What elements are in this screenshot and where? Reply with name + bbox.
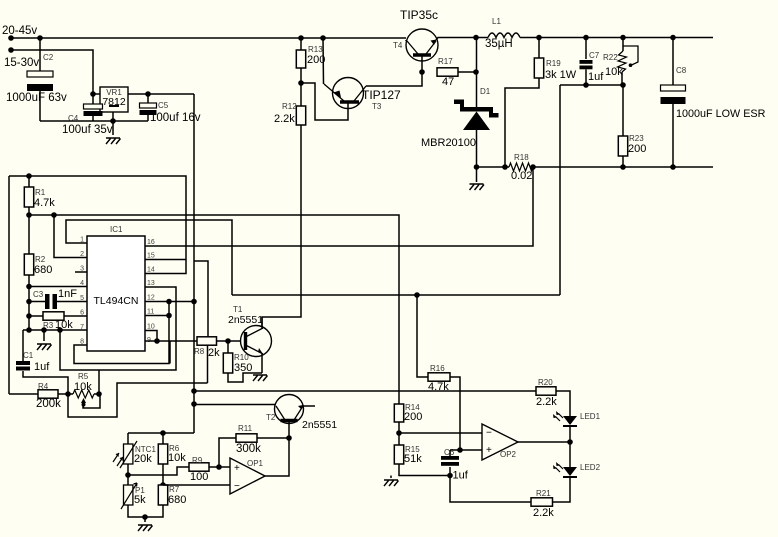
resistor R19 [534,58,543,78]
junction C2 top [37,35,43,41]
junction T1 base/R10 [225,338,231,344]
wire NTC1 bottom [127,464,129,475]
wire top output rail to L1 [436,38,488,41]
svg-text:14: 14 [147,267,155,274]
wire to C4 top [92,94,94,104]
wire to signal ground [43,330,45,341]
wire net A current sense to pin 16 [145,167,533,246]
junction bridge gnd [142,514,148,520]
junction pin2 tap [51,212,57,218]
wire R2 bottom bus [28,275,30,330]
svg-text:4.7k: 4.7k [428,381,449,393]
wire IC pin1 to net B [66,220,232,295]
inductor L1 [488,33,520,38]
junction C8 top [670,35,676,41]
wire R22 bottom [622,72,623,85]
wire divider to OP2- [399,432,482,434]
svg-text:2.2k: 2.2k [536,396,557,408]
svg-text:OP1: OP1 [247,459,264,468]
junction R18 right [530,164,536,170]
svg-text:R9: R9 [192,456,203,465]
svg-text:300k: 300k [236,443,261,455]
wire ground bus under VR1 [40,120,148,122]
junction R19 top [536,35,542,41]
resistor R3 [43,312,64,320]
ground comparator [384,480,399,486]
svg-text:20k: 20k [134,453,152,465]
svg-text:2: 2 [80,251,84,258]
wire bottom output rail [533,166,713,168]
junction C6 gnd [447,473,453,479]
svg-text:13: 13 [147,280,155,287]
svg-text:200: 200 [404,411,422,423]
svg-text:C1: C1 [23,351,34,360]
svg-text:+: + [486,445,492,456]
wire pin2 line and R14 column [29,215,399,404]
svg-text:R22: R22 [603,53,618,62]
resistor R11 [236,434,257,442]
svg-text:T1: T1 [233,305,243,314]
junction R14/R15 [396,430,402,436]
node + input terminal 20-45v [8,35,14,41]
wire pin 9 to R8 [145,340,197,342]
wire C2 bottom [39,91,41,121]
junction R1 top [26,173,32,179]
junction bridge left mid [125,472,131,478]
wire C6 bottom [449,467,451,476]
wire R20 to LED1 [556,391,570,416]
wire R3 to pin6 [64,315,87,317]
svg-text:1: 1 [80,237,84,244]
wire base node to R10 [227,341,229,353]
wire R5 right [94,393,99,395]
wire feedback tap line [560,84,623,86]
resistor R8 [197,337,217,345]
svg-text:TIP127: TIP127 [362,88,401,102]
wire bridge top rail [128,432,194,434]
svg-text:100: 100 [190,471,208,483]
svg-text:10k: 10k [605,66,623,78]
svg-text:R8: R8 [194,347,205,356]
junction C7 top [583,35,589,41]
junction OP2+ node [457,447,463,453]
junction pin7 gnd tap [41,327,47,333]
svg-text:4: 4 [80,280,84,287]
wire T3 emitter from rail [322,38,325,84]
svg-text:7: 7 [80,324,84,331]
svg-text:350: 350 [234,362,252,374]
wire rail to R19 [538,38,540,59]
capacitor C7 [580,60,593,64]
wire LED2 to R21 [553,477,571,502]
transistor T4 TIP35c [406,29,438,61]
svg-text:R13: R13 [308,45,323,54]
wire rail to R13 [300,38,302,50]
svg-text:C2: C2 [43,53,54,62]
svg-text:R11: R11 [238,424,253,433]
junction VCC to R20 bus [191,388,197,394]
junction R17/D1 [473,69,479,75]
LED2 [563,467,577,476]
svg-text:LED1: LED1 [580,412,601,421]
wire R14 to R15 [398,422,400,445]
svg-text:10k: 10k [168,452,186,464]
wire R15 bottom rail [399,464,450,476]
svg-text:5k: 5k [134,494,146,506]
svg-text:T2: T2 [266,413,276,422]
junction pin9/pin10 [154,338,160,344]
trimmer R5 [73,390,94,398]
wire feedback up to R11 [219,438,236,467]
wire to R1 [28,176,30,187]
wire top supply rail left segment [11,37,406,39]
transistor T1 2n5551 [241,326,272,357]
junction C7 bottom [583,82,589,88]
wire R17 to D1 column [458,71,476,73]
wire pin 3 stub [75,271,87,273]
wire R8 to T1 base [217,340,246,342]
wire gnd rail to R18 [477,166,510,168]
wire T1 emitter down [261,354,263,373]
resistor R18 shunt [509,163,533,171]
svg-text:12: 12 [147,295,155,302]
resistor R1 [24,187,33,207]
svg-text:R2: R2 [35,255,46,264]
svg-text:R12: R12 [282,102,297,111]
svg-text:15: 15 [147,253,155,260]
svg-text:R10: R10 [234,353,249,362]
junction pin13 gnd tie [57,327,63,333]
wire R5 right to gnd loop [98,370,100,394]
svg-text:R23: R23 [629,134,644,143]
wire net B vertical x560 [559,85,561,295]
svg-text:C7: C7 [589,51,600,60]
wire T2 emitter stub [303,405,315,407]
wire R21 to gnd node [450,476,531,503]
capacitor C1 [16,361,30,365]
wire R6/R7 node to OP1- [163,484,230,486]
junction pin12/pin11 tie [166,299,172,305]
svg-text:2.2k: 2.2k [533,507,554,519]
svg-text:10k: 10k [74,381,92,393]
wire T4 base down [421,56,423,72]
wire R9 to OP1+ [209,466,230,468]
wire to IC pin 2 [54,215,87,258]
wire R5 wiper to right end [83,394,100,408]
wire rail to C2 [39,38,41,71]
junction T4 base / R17 [419,69,425,75]
junction C8 bottom [670,164,676,170]
wire VR1 input [93,93,100,95]
wire R1/R2 node to R2 [28,215,30,254]
wire C1 bottom to R4 node [23,371,68,394]
wire 15-30v rail to VR1 input [11,50,93,94]
junction pin6 bus [26,313,32,319]
transistor T3 TIP127 [333,78,364,109]
wire VCC column to NTC bridge [193,302,195,434]
LED1 [563,416,577,425]
junction pin4 bus [26,284,32,290]
wire C6 node to OP2+ [450,449,482,451]
svg-text:100uf 16v: 100uf 16v [150,112,201,124]
wire bridge bottom [128,505,163,517]
wire pin8 loop riser [169,341,171,364]
wire to C5 top [147,94,149,103]
svg-text:R5: R5 [78,372,89,381]
capacitor C5 [140,103,157,108]
resistor R7 [158,485,167,505]
wire pin 4 [29,286,87,288]
op-amp OP1 [230,458,265,494]
wire OP2 output [518,441,570,443]
resistor R2 [24,254,33,275]
wire pin 15 to Vref column [145,259,186,261]
resistor R21 [531,498,553,506]
svg-text:5: 5 [80,295,84,302]
junction R22 top [620,35,626,41]
svg-text:16: 16 [147,239,155,246]
wire to R6 [162,433,164,444]
wire pin10 jog [145,331,157,342]
capacitor C4 [84,104,103,109]
wire net B down to R16 [417,295,428,377]
svg-text:47: 47 [442,76,454,88]
junction pin12 to VCC column [191,299,197,305]
wire to P1 [127,475,129,485]
wire output rail after L1 [520,37,713,39]
power ground symbol [470,184,485,190]
svg-text:R7: R7 [169,485,180,494]
resistor R16 [428,373,450,381]
wire rail to C7 [585,38,587,60]
junction pin7 bus [26,327,32,333]
transistor T2 2n5551 [275,395,304,424]
op-amp OP2 [482,424,518,460]
junction VCC to T2 collector [191,401,197,407]
resistor R13 [296,50,305,68]
wire to power ground [476,167,478,182]
svg-text:C8: C8 [676,66,687,75]
junction R1/R2 [26,212,32,218]
svg-text:11: 11 [147,309,154,316]
R5 wiper [83,401,85,408]
wire to bridge ground [144,517,146,522]
node second input terminal 15-30v [8,47,14,53]
capacitor C6 [441,456,459,460]
NTC arrows [113,453,123,466]
wire R22 bottom to R23 [622,85,624,136]
potentiometer P1 [124,485,133,505]
junction pin11 [166,313,172,319]
wire rail joins T4 [405,40,407,41]
svg-text:2n5551: 2n5551 [228,314,263,326]
wire VCC column upper [193,94,195,302]
junction C5 top [145,91,151,97]
svg-text:R18: R18 [514,153,529,162]
trimmer R22 [623,46,638,65]
svg-text:D1: D1 [480,87,491,96]
wire Vref pin14 loop top [9,176,186,274]
svg-text:200k: 200k [36,398,61,410]
junction R22 bottom [620,82,626,88]
svg-text:2.2k: 2.2k [274,113,295,125]
junction R13 top [298,35,304,41]
wire to R5 [68,393,73,395]
wire pin 11 [145,315,169,317]
wire R11 to output node [257,437,289,439]
svg-text:R17: R17 [438,57,453,66]
svg-text:TL494CN: TL494CN [94,295,139,307]
regulator VR1 7812 [100,87,128,112]
resistor R12 [296,106,305,125]
svg-text:1nF: 1nF [58,288,77,300]
wire R16 to OP2+ [450,377,460,450]
svg-text:1000uF 63v: 1000uF 63v [6,92,67,104]
svg-text:0.02: 0.02 [511,170,532,182]
wire VCC bus to R20 [194,390,536,392]
svg-text:35µH: 35µH [485,38,513,50]
wire left bus to R4 [9,393,38,395]
svg-text:R4: R4 [38,382,49,391]
svg-text:1uf: 1uf [34,361,50,373]
svg-text:1uf: 1uf [588,71,604,83]
svg-text:2k: 2k [208,347,220,359]
wire junction to R12 [300,83,302,106]
svg-text:T4: T4 [393,41,403,50]
wire VCC branch to R8 column [194,261,208,338]
svg-text:51k: 51k [404,453,422,465]
wire T2 base down [288,422,290,438]
capacitor C8 [661,85,686,91]
wire to C1 top [22,330,24,361]
svg-text:−: − [234,481,240,492]
wire OP1 output up [265,438,289,476]
svg-text:L1: L1 [492,17,501,26]
svg-text:10: 10 [147,324,155,331]
svg-text:7812: 7812 [102,96,126,108]
wire T2 collector bus [194,404,275,406]
resistor R9 [189,463,209,471]
svg-text:200: 200 [628,143,646,155]
wire T3 base path [301,83,348,120]
wire C3 to pin5 [57,301,87,303]
resistor R17 [437,68,458,76]
svg-text:3k 1W: 3k 1W [545,69,577,81]
capacitor C3 [45,294,50,309]
svg-text:R20: R20 [538,378,553,387]
wire C7 bottom [585,70,587,86]
junction R18 left [502,164,508,170]
svg-text:100uf 35v: 100uf 35v [62,124,113,136]
junction bridge right mid [160,482,166,488]
wire net B feedback horizontal [232,294,560,296]
svg-text:LED2: LED2 [580,463,601,472]
svg-text:IC1: IC1 [110,225,123,234]
wire VR1 ground pin [112,112,114,121]
junction net B to R16 [414,292,420,298]
resistor R14 [394,404,403,422]
wire R6 bottom [162,464,164,485]
junction D1 top [473,35,479,41]
ground T1 emitter [253,375,268,381]
svg-text:−: − [486,428,492,439]
svg-text:+: + [234,463,240,474]
wire R19 bottom to R18 left [505,78,539,167]
svg-text:R16: R16 [430,364,445,373]
junction OP1 out/T2 base [286,435,292,441]
wire VR1 gnd down [112,121,114,135]
svg-text:2n5551: 2n5551 [302,419,337,431]
wire pin5 to C3 [29,301,45,303]
junction LED mid [567,439,573,445]
resistor R15 [394,445,403,464]
svg-text:1uf: 1uf [453,470,469,482]
wire to C6 [449,450,451,456]
wire pin 12 VCC [145,301,194,303]
wire R4 node loop to R8 bottom [68,383,208,417]
wire R12 bottom to T1 collector [262,125,301,327]
resistor R6 [158,444,167,464]
svg-text:R1: R1 [35,188,46,197]
wire D1 cathode column [476,38,478,108]
svg-text:1000uF LOW ESR: 1000uF LOW ESR [676,108,766,120]
wire gnd stub [390,476,392,479]
wire left bus vertical [8,176,10,394]
svg-text:C4: C4 [68,114,79,123]
wire R1 bottom [28,207,30,215]
wire to NTC1 [127,433,129,444]
wire C5 bottom [147,115,149,121]
junction R6 top [160,430,166,436]
wire T3 collector to T4 base [366,72,422,86]
junction T3 base node [298,80,304,86]
svg-text:C3: C3 [33,290,44,299]
svg-text:T3: T3 [372,102,382,111]
wire C8 bottom [672,104,674,167]
junction VR1 gnd [110,118,116,124]
svg-text:OP2: OP2 [500,450,517,459]
resistor R23 [618,136,627,156]
wire VR1 output to VCC column [128,93,194,95]
signal ground near IC [37,344,52,350]
svg-text:4.7k: 4.7k [34,197,55,209]
ground below VR1 [106,138,121,144]
svg-text:680: 680 [34,264,52,276]
junction VR1 input node [90,91,96,97]
wire pin6 to R3 [29,315,43,317]
svg-text:680: 680 [168,494,186,506]
wire R4 to node [58,393,68,395]
svg-text:MBR20100: MBR20100 [421,137,476,149]
wire bridge left to R9 [128,467,189,475]
wire R13 to junction [300,68,302,83]
junction D1 anode / gnd rail [474,164,480,170]
wire C4 bottom [92,116,94,121]
svg-text:C5: C5 [158,101,169,110]
resistor R4 [38,390,58,398]
wire output to LED2 [569,442,571,467]
junction R4/R5 [65,391,71,397]
wire rail to C8 [672,38,674,86]
svg-text:R21: R21 [536,489,551,498]
wire R23 to gnd rail [622,156,624,167]
svg-text:TIP35c: TIP35c [400,8,438,22]
wire D1 anode down [476,130,478,167]
wire pin11/pin8 VCC tie [74,302,169,364]
junction OP1+ node [216,464,222,470]
wire pin13 to ground loop [60,287,176,370]
capacitor C2 [27,71,53,77]
